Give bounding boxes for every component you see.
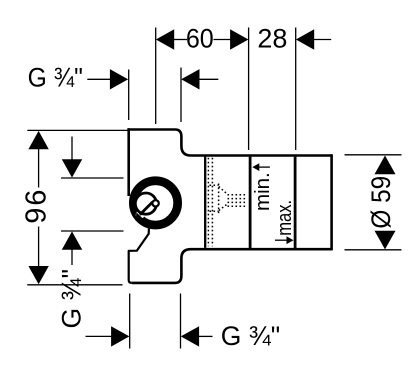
svg-text:G ¾": G ¾" (221, 321, 280, 351)
svg-text:G ¾": G ¾" (28, 64, 83, 93)
svg-text:G ¾": G ¾" (57, 269, 87, 328)
svg-text:max.: max. (272, 200, 295, 236)
svg-text:60: 60 (186, 23, 214, 54)
svg-text:Ø 59: Ø 59 (367, 176, 396, 229)
svg-text:28: 28 (257, 24, 287, 54)
svg-text:min.: min. (251, 172, 274, 211)
svg-text:96: 96 (21, 188, 53, 224)
